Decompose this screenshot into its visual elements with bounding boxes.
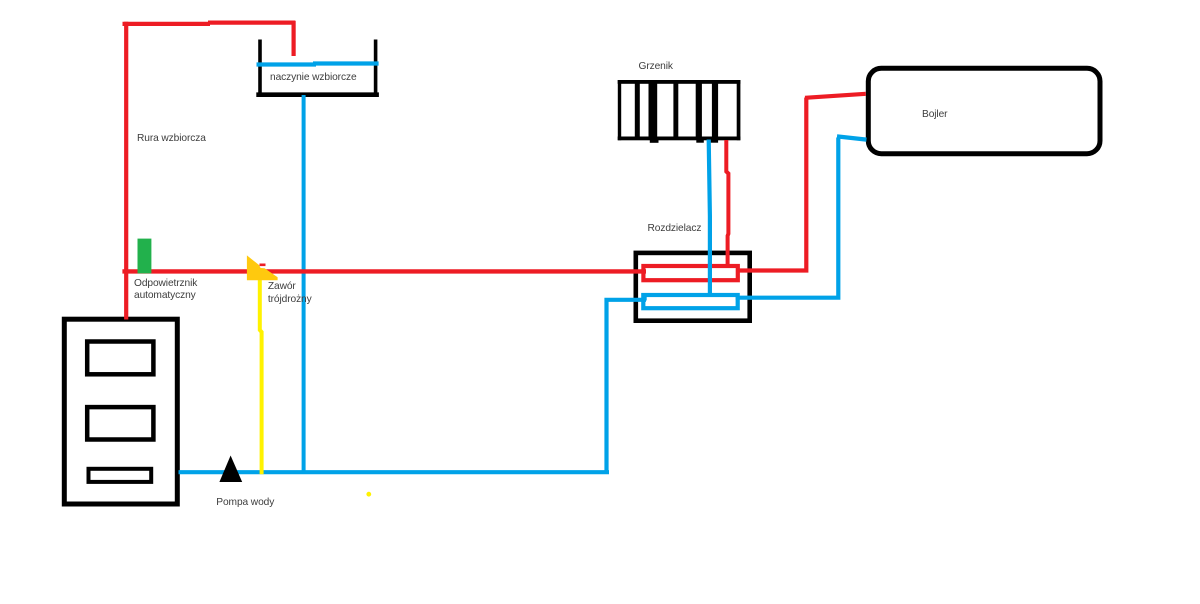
- cold pipe: return riser up to manifold: [607, 295, 647, 474]
- expansion vessel (naczynie wzbiorcze) container: [256, 40, 379, 96]
- boiler furnace body: [64, 319, 177, 504]
- water pump (black triangle, Pompa wody): [219, 456, 242, 483]
- radiator fin 4: [696, 80, 702, 140]
- svg-text:Rozdzielacz: Rozdzielacz: [648, 223, 702, 234]
- hot pipe: drop into expansion vessel: [292, 21, 296, 56]
- furnace door lower (ash pit): [89, 469, 152, 482]
- stray red dash near valve: [260, 263, 266, 266]
- furnace door upper: [87, 342, 153, 375]
- radiator fin 5: [712, 80, 718, 140]
- radiator fin 3: [673, 80, 678, 140]
- svg-text:Bojler: Bojler: [922, 109, 948, 120]
- hot pipe: into Bojler: [805, 94, 866, 98]
- manifold cold chamber (blue rectangle): [643, 295, 737, 308]
- radiator fin 2: [649, 80, 658, 140]
- cold pipe: into Bojler: [837, 136, 867, 139]
- svg-text:Grzenik: Grzenik: [639, 61, 674, 72]
- manifold hot chamber (red rectangle): [643, 266, 737, 280]
- yellow actuator stem line: [260, 278, 262, 474]
- automatic air vent (green, Odpowietrznik automatyczny): [138, 239, 152, 274]
- hot pipe: top horizontal run: [123, 23, 296, 24]
- hot pipe: riser vertical (rura wzbiorcza): [124, 22, 128, 320]
- radiator bottom stubs: [650, 140, 659, 143]
- three-way valve (gold triangle, Zawór trójdrożny): [247, 255, 278, 280]
- cold pipe: radiator drop through manifold: [709, 140, 710, 295]
- furnace door middle: [87, 407, 153, 439]
- svg-text:Pompa wody: Pompa wody: [216, 497, 275, 508]
- svg-text:trójdrożny: trójdrożny: [268, 294, 313, 305]
- hot pipe: radiator drop to manifold: [726, 140, 728, 267]
- hot water tank (Bojler): [868, 68, 1100, 153]
- svg-text:Rura wzbiorcza: Rura wzbiorcza: [137, 133, 206, 144]
- svg-text:naczynie wzbiorcze: naczynie wzbiorcze: [270, 72, 357, 83]
- water level line in vessel (blue): [257, 64, 379, 65]
- hot pipe: main horizontal supply run: [122, 269, 646, 273]
- cold pipe: return horizontal from boiler: [179, 470, 610, 474]
- hot pipe: manifold to riser corner segment: [736, 98, 806, 271]
- manifold (Rozdzielacz) outer box: [636, 253, 750, 321]
- svg-text:Odpowietrznik: Odpowietrznik: [134, 278, 198, 289]
- cold pipe: manifold to Bojler riser: [736, 138, 839, 298]
- svg-text:Zawór: Zawór: [268, 281, 297, 292]
- cold pipe: vessel down pipe: [302, 95, 306, 473]
- stray yellow dot: [366, 492, 371, 497]
- radiator (Grzenik): [618, 80, 741, 143]
- svg-text:automatyczny: automatyczny: [134, 290, 197, 301]
- radiator fin 1: [635, 80, 640, 140]
